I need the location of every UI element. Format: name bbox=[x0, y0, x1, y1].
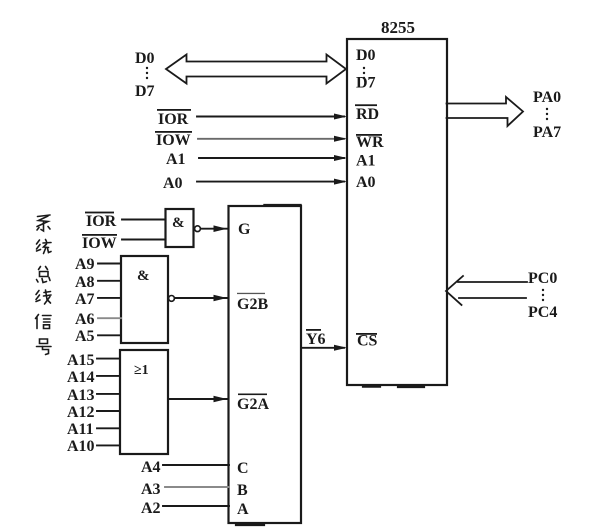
wire A8 bbox=[98, 280, 121, 282]
svg-text:G: G bbox=[238, 221, 251, 238]
arrowhead G bbox=[214, 225, 228, 232]
svg-text:8255: 8255 bbox=[381, 18, 415, 37]
wire A10 bbox=[97, 444, 120, 446]
overline IOW top bbox=[155, 131, 192, 133]
wire IOR to RD bbox=[197, 116, 344, 118]
dots PC bbox=[542, 289, 544, 291]
arrowhead CS bbox=[334, 345, 347, 351]
svg-text:G2A: G2A bbox=[237, 396, 269, 413]
svg-text:&: & bbox=[137, 268, 150, 284]
svg-text:IOR: IOR bbox=[158, 111, 189, 128]
svg-text:RD: RD bbox=[356, 106, 379, 123]
svg-text:D7: D7 bbox=[356, 75, 376, 92]
svg-text:A2: A2 bbox=[141, 500, 161, 517]
svg-text:A3: A3 bbox=[141, 481, 161, 498]
svg-text:PA0: PA0 bbox=[533, 89, 561, 106]
arrowhead A1 bbox=[334, 155, 347, 161]
svg-text:D0: D0 bbox=[135, 50, 155, 67]
gate U5 OR (>=1) A15-A10 bbox=[120, 350, 168, 454]
svg-text:D0: D0 bbox=[356, 47, 376, 64]
wire A12 bbox=[97, 410, 120, 412]
IC U1 8255 box bbox=[347, 39, 447, 385]
wire IOW to gate bbox=[122, 239, 166, 241]
svg-text:A12: A12 bbox=[67, 404, 95, 421]
wire PC0 bbox=[458, 281, 527, 283]
svg-text:A: A bbox=[237, 501, 249, 518]
arrowhead WR bbox=[334, 136, 347, 142]
char 线 bbox=[36, 290, 51, 304]
svg-text:≥1: ≥1 bbox=[134, 363, 149, 378]
svg-text:A1: A1 bbox=[166, 151, 186, 168]
wire PC4 bbox=[459, 297, 526, 299]
wire A0 bbox=[197, 181, 344, 183]
overline IOR top bbox=[157, 109, 191, 111]
gate U4 NAND (&) A9-A5 bbox=[121, 256, 168, 343]
svg-text:WR: WR bbox=[356, 134, 384, 151]
overline IOR gate bbox=[85, 212, 114, 214]
arrowhead A0 bbox=[334, 179, 347, 185]
arrowhead G2A bbox=[214, 396, 228, 403]
overline Y6 bbox=[306, 329, 321, 331]
svg-text:A4: A4 bbox=[141, 459, 161, 476]
svg-text:A1: A1 bbox=[356, 153, 376, 170]
overline WR bbox=[356, 134, 382, 136]
bus arrow PC0-PC4 in bbox=[446, 276, 463, 305]
svg-text:A13: A13 bbox=[67, 387, 95, 404]
char 总 bbox=[37, 267, 51, 283]
char 信 bbox=[36, 315, 52, 329]
svg-text:A6: A6 bbox=[75, 311, 95, 328]
bubble gate1 output bbox=[195, 226, 201, 232]
scan-thick edge 8255 bottom bbox=[363, 386, 424, 389]
svg-text:A7: A7 bbox=[75, 291, 95, 308]
wire A2 to A bbox=[163, 505, 229, 507]
wire A11 bbox=[97, 427, 120, 429]
char 系 bbox=[37, 215, 50, 231]
svg-text:G2B: G2B bbox=[237, 296, 268, 313]
char 号 bbox=[37, 339, 52, 355]
wire gate3 out to G2A bbox=[168, 398, 229, 400]
wire gate1 out to G bbox=[200, 228, 229, 230]
svg-text:A14: A14 bbox=[67, 369, 95, 386]
wire A7 bbox=[98, 297, 121, 299]
arrowhead G2B bbox=[214, 295, 228, 302]
svg-text:A0: A0 bbox=[163, 175, 183, 192]
overline G2B bbox=[237, 293, 265, 294]
svg-text:B: B bbox=[237, 482, 248, 499]
scan-thick edge decoder top bbox=[264, 204, 301, 206]
wire A1 bbox=[199, 157, 344, 159]
svg-text:A9: A9 bbox=[75, 256, 95, 273]
dots PA bbox=[546, 108, 548, 110]
svg-text:A11: A11 bbox=[67, 421, 94, 438]
bus arrow PA0-PA7 out bbox=[447, 97, 524, 126]
svg-text:D7: D7 bbox=[135, 83, 155, 100]
svg-text:PC0: PC0 bbox=[528, 270, 557, 287]
wire A4 to C bbox=[163, 464, 229, 466]
svg-text:IOW: IOW bbox=[82, 235, 117, 252]
scan-thick edge decoder bottom bbox=[236, 524, 264, 526]
svg-text:PA7: PA7 bbox=[533, 124, 561, 141]
dots D pin bbox=[363, 67, 365, 69]
arrowhead RD bbox=[334, 114, 347, 120]
svg-text:CS: CS bbox=[357, 333, 378, 350]
wire A14 bbox=[97, 375, 120, 377]
chinese text 系统总线信号 drawn as strokes bbox=[36, 215, 52, 355]
svg-text:A5: A5 bbox=[75, 328, 95, 345]
svg-text:A10: A10 bbox=[67, 438, 95, 455]
svg-text:IOW: IOW bbox=[156, 132, 191, 149]
bus arrow D0-D7 bidirectional bbox=[166, 55, 346, 84]
wire A13 bbox=[97, 393, 120, 395]
wire IOW to WR bbox=[198, 138, 344, 140]
svg-text:Y6: Y6 bbox=[306, 331, 326, 348]
bubble gate2 output bbox=[169, 296, 175, 302]
gate U3 NAND (&) IOR/IOW bbox=[166, 209, 194, 247]
svg-text:A8: A8 bbox=[75, 274, 95, 291]
wire A15 bbox=[97, 358, 120, 360]
svg-text:A15: A15 bbox=[67, 352, 95, 369]
svg-text:C: C bbox=[237, 460, 249, 477]
overline G2A bbox=[238, 394, 267, 396]
wire A9 bbox=[98, 263, 121, 265]
wire IOR to gate bbox=[122, 219, 166, 221]
svg-text:IOR: IOR bbox=[86, 213, 117, 230]
svg-text:PC4: PC4 bbox=[528, 304, 557, 321]
overline IOW gate bbox=[82, 234, 117, 236]
char 统 bbox=[37, 240, 52, 254]
svg-text:&: & bbox=[172, 215, 185, 231]
dots D left bbox=[146, 67, 148, 69]
wire A3 to B bbox=[165, 486, 229, 488]
svg-text:A0: A0 bbox=[356, 174, 376, 191]
overline CS bbox=[356, 333, 377, 335]
wire A6 bbox=[98, 317, 121, 319]
wire A5 bbox=[98, 334, 121, 336]
overline RD bbox=[355, 104, 377, 106]
wire gate2 out to G2B bbox=[175, 297, 229, 299]
wire Y6 to CS bbox=[301, 347, 344, 349]
decoder U2 74LS138 box bbox=[229, 206, 302, 523]
